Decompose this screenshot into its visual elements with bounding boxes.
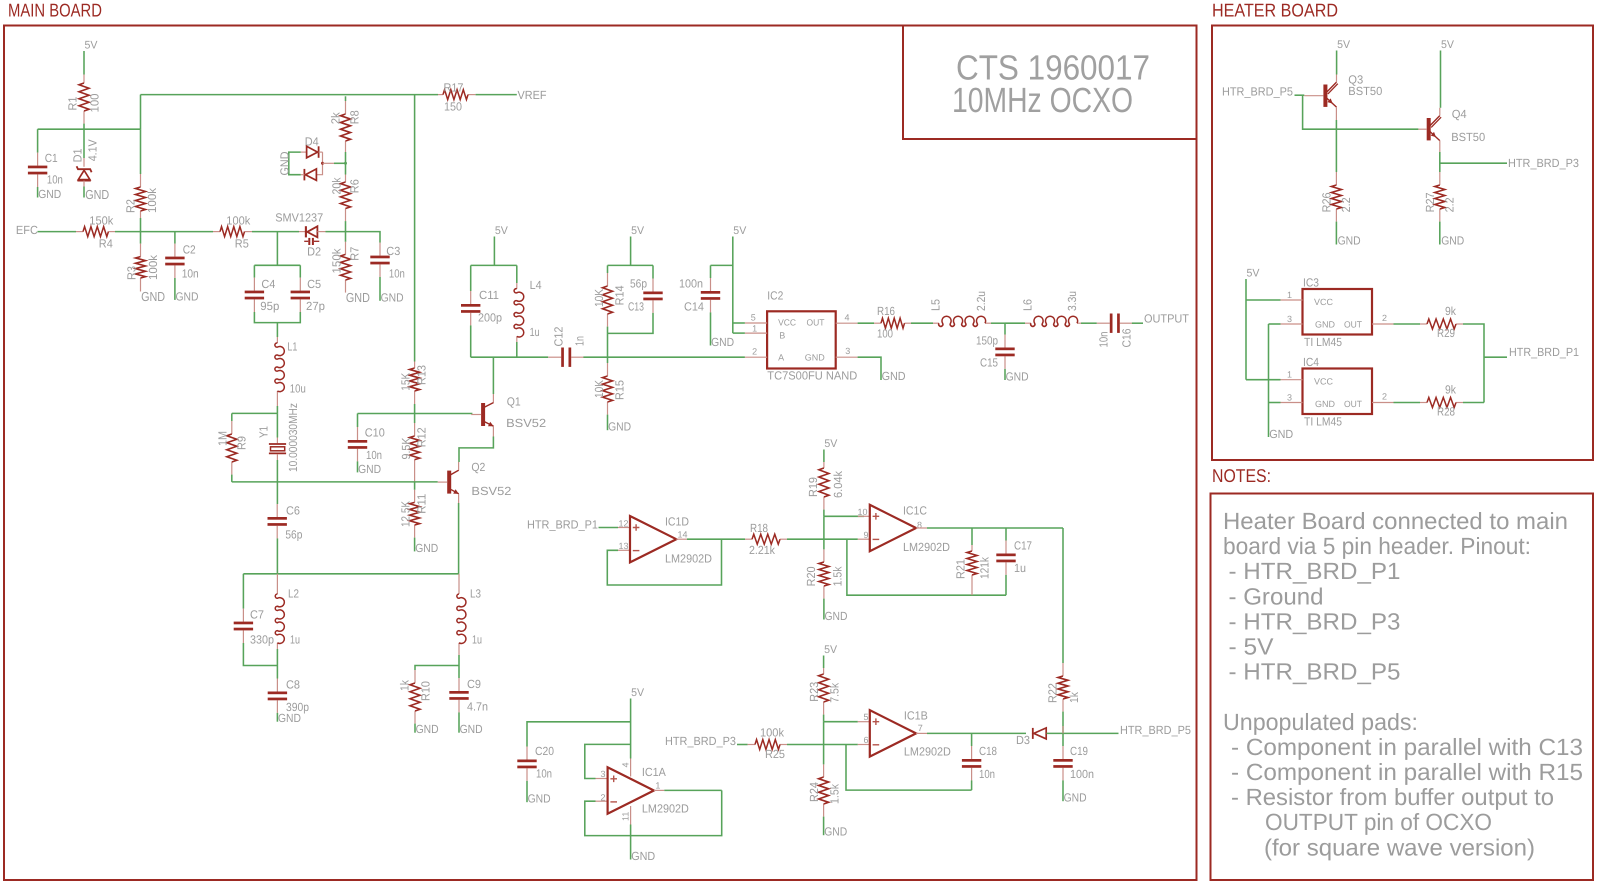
svg-text:7: 7 [918,723,923,733]
IC2 pin 3 + ground [836,356,858,358]
svg-text:D2: D2 [307,244,321,258]
wire C12 to IC2 pin2 [583,356,745,358]
svg-text:5V: 5V [631,225,645,237]
svg-text:14: 14 [678,529,688,539]
wire VREF [476,94,517,96]
svg-text:TC7S00FU NAND: TC7S00FU NAND [767,369,857,383]
wire IC1D output + feedback [676,538,687,540]
resistor R5 [213,231,220,233]
svg-text:C12: C12 [552,327,566,347]
svg-text:1u: 1u [530,325,540,339]
wire base branch to Q4 [1303,95,1419,129]
svg-text:C9: C9 [467,677,481,691]
main board frame [4,26,1197,881]
svg-text:3: 3 [845,346,850,356]
transistor Q1 BSV52 [481,403,485,426]
svg-text:10n: 10n [389,266,405,280]
svg-text:R21: R21 [954,559,968,579]
wire IC1A feedback [585,790,722,835]
svg-text:L6: L6 [1021,299,1035,311]
svg-text:C20: C20 [535,744,554,758]
svg-text:HTR_BRD_P1: HTR_BRD_P1 [527,517,598,531]
wire R9/Y1 top rail [232,412,278,414]
svg-text:3: 3 [601,769,606,779]
resistor R18 [745,538,752,540]
svg-text:9k: 9k [1445,304,1456,318]
svg-text:HTR_BRD_P3: HTR_BRD_P3 [665,734,736,748]
wire Q3 emitter [1335,107,1337,120]
svg-text:C6: C6 [286,504,300,518]
svg-text:5V: 5V [1337,39,1351,51]
resistor R20 [823,549,825,562]
ground (C14) [710,312,712,345]
resistor R21 [971,528,973,545]
svg-text:HTR_BRD_P1: HTR_BRD_P1 [1509,345,1579,359]
svg-text:R17: R17 [444,81,464,95]
svg-text:BSV52: BSV52 [506,416,546,430]
svg-text:5V: 5V [495,225,509,237]
wire C14 top rail [711,264,733,266]
svg-text:10n: 10n [366,448,382,462]
wire L2-C8 [276,649,278,679]
svg-text:C8: C8 [286,678,300,692]
svg-text:R27: R27 [1423,192,1437,212]
svg-text:C14: C14 [684,300,704,314]
wire R8-junction [345,152,347,175]
svg-text:- 5V: - 5V [1229,634,1274,660]
svg-text:- HTR_BRD_P3: - HTR_BRD_P3 [1229,608,1401,634]
svg-text:R15: R15 [612,380,626,400]
junction dot (D4 node) [344,162,347,165]
wire IC1C feedback loop [847,539,1006,595]
svg-text:C19: C19 [1070,744,1088,758]
op-amp IC1B [858,721,870,723]
wire Q4 emitter / HTR_BRD_P3 node [1439,141,1441,152]
svg-text:GND: GND [1269,427,1293,441]
capacitor C13 [652,265,654,278]
svg-text:GND: GND [1064,791,1087,805]
svg-text:5V: 5V [631,687,645,699]
capacitor C15 [1004,323,1006,334]
svg-text:56p: 56p [285,528,302,542]
ground (R10) [414,724,416,733]
ground (C20) [526,781,528,802]
svg-text:R5: R5 [235,237,249,251]
svg-text:12.5K: 12.5K [398,501,412,527]
svg-text:R19: R19 [806,477,820,497]
wire tank bottom rail [471,356,549,358]
svg-text:TI LM45: TI LM45 [1304,415,1342,429]
transistor Q2 BSV52 [447,471,451,494]
svg-text:3: 3 [1287,314,1292,324]
svg-text:1.5k: 1.5k [830,566,844,586]
svg-text:27p: 27p [306,299,325,313]
svg-text:100k: 100k [226,213,250,227]
svg-text:100: 100 [877,326,893,340]
svg-text:Q2: Q2 [471,460,485,474]
svg-text:GND: GND [631,849,655,863]
inductor L2 [276,574,278,594]
svg-text:GND: GND [1315,319,1336,329]
svg-text:2.2: 2.2 [1442,197,1456,212]
IC4 pin 1 [1246,379,1281,381]
wire D3 to HTR_BRD_P5 [1047,732,1119,734]
ground (C19) [1062,780,1064,801]
svg-text:B: B [779,330,785,340]
svg-text:R1: R1 [66,97,80,111]
resistor R12 [414,414,416,424]
capacitor C4 [253,265,255,277]
svg-text:L1: L1 [287,339,297,353]
capacitor C18 [971,733,973,746]
IC2 pin 2 [745,356,767,358]
svg-text:C18: C18 [979,744,997,758]
svg-text:Unpopulated pads:: Unpopulated pads: [1223,709,1418,735]
svg-text:IC1A: IC1A [642,765,666,779]
svg-text:4.7n: 4.7n [467,700,488,714]
svg-text:R8: R8 [348,110,362,124]
wire riser to VREF rail [140,95,142,130]
svg-text:IC2: IC2 [767,289,783,303]
svg-text:EFC: EFC [16,223,38,237]
svg-text:56p: 56p [630,276,647,290]
svg-text:3: 3 [1287,392,1292,402]
svg-text:R3: R3 [125,266,139,280]
ground (R20) [823,599,825,620]
notes frame [1211,494,1594,881]
svg-text:4: 4 [845,313,850,323]
resistor R15 [607,363,609,376]
svg-text:2: 2 [601,793,606,803]
svg-text:LM2902D: LM2902D [642,802,689,816]
resistor R1 [83,75,85,84]
svg-text:GND: GND [381,290,404,304]
svg-text:10K: 10K [592,289,606,307]
svg-text:IC1C: IC1C [903,503,927,517]
resistor R13 [414,362,416,369]
svg-text:10.000030MHz: 10.000030MHz [286,403,300,472]
wire R29 to HTR_BRD_P1 [1463,324,1484,403]
svg-text:8: 8 [917,520,922,530]
op-amp IC1A [596,778,608,780]
IC3 pin 3 [1269,323,1281,325]
IC3 pin 1 [1246,299,1281,301]
wire Q1 collector [492,394,494,403]
svg-text:L2: L2 [288,586,299,600]
svg-text:10n: 10n [1097,332,1111,348]
svg-text:GND: GND [346,290,370,305]
svg-text:100n: 100n [1070,767,1094,781]
wire tank box [471,264,517,266]
svg-text:2.2: 2.2 [1339,197,1353,212]
capacitor C17 [1005,528,1007,541]
resistor R14 [607,265,609,273]
capacitor C7 [242,574,244,609]
svg-text:R28: R28 [1437,405,1455,419]
svg-text:GND: GND [278,711,301,725]
svg-text:7.5k: 7.5k [828,683,842,703]
svg-text:1: 1 [655,780,660,790]
diode D3 [1032,728,1034,739]
svg-text:- Component in parallel with R: - Component in parallel with R15 [1231,759,1583,785]
svg-text:1: 1 [752,323,757,333]
resistor R3 [140,232,142,244]
svg-text:5V: 5V [824,438,838,450]
svg-text:R4: R4 [99,237,113,251]
wire C13 bottom rail [608,313,654,334]
svg-text:R13: R13 [414,365,428,385]
svg-text:- Ground: - Ground [1229,583,1324,609]
svg-text:10n: 10n [536,767,552,781]
resistor R2 [140,129,142,174]
capacitor C14 [710,265,712,278]
svg-text:95p: 95p [260,299,279,313]
svg-text:C3: C3 [386,244,400,258]
wire node R1/C1/D1 [38,128,141,130]
svg-text:C4: C4 [261,277,275,291]
svg-text:IC3: IC3 [1303,276,1319,290]
capacitor C10 [357,414,359,428]
wire D2-R6R7 node-C3 [326,232,381,243]
svg-text:3.3u: 3.3u [1065,291,1079,311]
svg-text:NOTES:: NOTES: [1212,465,1271,486]
svg-text:VCC: VCC [778,317,796,327]
ground (C1) [37,187,39,198]
varactor diode D2 [299,231,306,233]
capacitor C9 [458,666,460,679]
wire long column x=414.6 [414,95,416,362]
ground (C3) [379,277,381,301]
svg-text:R24: R24 [807,782,821,802]
svg-text:100n: 100n [679,276,703,290]
svg-text:5: 5 [751,313,756,323]
svg-text:BST50: BST50 [1348,84,1382,98]
svg-text:GND: GND [711,335,734,349]
svg-text:Y1: Y1 [256,426,270,438]
svg-text:C13: C13 [628,300,644,314]
svg-text:C1: C1 [45,151,58,165]
svg-text:GND: GND [528,792,551,806]
wire to L1 [276,323,278,337]
svg-text:- Resistor from buffer output: - Resistor from buffer output to [1231,784,1554,810]
svg-text:R2: R2 [123,199,137,213]
svg-text:1: 1 [1287,370,1292,380]
wire R16-L5 [911,322,933,324]
svg-text:OUT: OUT [807,317,825,327]
resistor R27 [1439,172,1441,185]
svg-text:10K: 10K [592,380,606,398]
wire to R22 [1062,528,1064,663]
wire R5-D2 [252,231,299,233]
wire Q2 emitter down [458,494,460,503]
resistor R28 [1420,402,1427,404]
wire R18 to IC1C pin9 [787,538,858,540]
title box [903,26,1197,140]
svg-text:R25: R25 [765,747,785,761]
svg-text:C16: C16 [1120,328,1134,347]
svg-text:2.21k: 2.21k [749,543,775,557]
svg-text:R26: R26 [1319,192,1333,212]
wire P5 to Q3 base [1295,94,1305,96]
wire R4-R5 [115,231,213,233]
ground (C15) [1004,369,1006,380]
ground (C10) [357,461,359,472]
inductor L5 2.2u [933,322,939,324]
inductor L6 3.3u [1005,322,1025,324]
svg-text:10n: 10n [182,266,199,280]
resistor R16 [874,322,881,324]
svg-text:LM2902D: LM2902D [903,540,950,554]
svg-text:1u: 1u [290,632,300,646]
svg-text:R12: R12 [414,427,428,447]
svg-text:GND: GND [1315,399,1336,409]
svg-text:100k: 100k [760,726,784,740]
svg-text:C11: C11 [479,288,499,302]
resistor R4 [76,231,83,233]
svg-text:10n: 10n [979,767,995,781]
svg-text:5V: 5V [824,644,838,656]
wire OUTPUT [1132,322,1143,324]
transistor Q3 BST50 [1323,85,1327,107]
wire R14-R15 node [607,333,609,363]
svg-text:L5: L5 [929,299,943,311]
svg-text:R9: R9 [235,436,249,450]
svg-text:L3: L3 [470,586,481,600]
wire R25 to IC1B pin6 [787,744,858,746]
svg-text:GND: GND [1338,234,1361,248]
capacitor C19 [1062,733,1064,746]
op-amp IC1C [858,515,870,517]
wire Q1 emitter to Q2 collector [492,426,494,436]
IC4 pin 3 [1269,402,1281,404]
svg-text:10n: 10n [47,173,63,187]
svg-text:1M: 1M [216,431,230,446]
svg-text:C17: C17 [1014,538,1032,552]
svg-text:OUT: OUT [1344,399,1362,409]
resistor R8 [345,96,347,101]
svg-text:20k: 20k [329,177,343,194]
wire C4/C5 bottom rail [254,312,300,323]
resistor R26 [1335,172,1337,185]
svg-text:GND: GND [882,369,906,383]
svg-text:GND: GND [358,462,381,476]
svg-text:D3: D3 [1016,733,1030,747]
svg-text:6.04k: 6.04k [831,471,845,498]
svg-text:2.2u: 2.2u [974,291,988,311]
svg-text:IC1B: IC1B [904,708,928,722]
svg-text:C2: C2 [183,242,196,256]
svg-text:IC1D: IC1D [665,514,689,528]
ground (C2) [174,278,176,300]
heater board frame [1212,26,1593,461]
svg-text:GND: GND [805,353,826,363]
svg-text:R20: R20 [804,566,818,586]
svg-text:GND: GND [277,152,291,176]
IC1A power pin 4 [630,759,632,777]
svg-text:R22: R22 [1046,683,1060,703]
svg-text:board via 5 pin header. Pinout: board via 5 pin header. Pinout: [1223,533,1531,559]
svg-text:R7: R7 [348,247,362,261]
svg-text:2: 2 [752,347,757,357]
svg-text:5V: 5V [1247,268,1261,280]
resistor R19 [823,462,825,468]
svg-text:R18: R18 [750,521,768,535]
svg-text:- HTR_BRD_P5: - HTR_BRD_P5 [1229,659,1401,685]
svg-text:TI LM45: TI LM45 [1304,335,1342,349]
capacitor C1 [37,129,39,152]
svg-text:GND: GND [38,187,61,201]
svg-text:4: 4 [621,762,631,767]
svg-text:R16: R16 [877,304,895,318]
svg-text:150p: 150p [976,334,998,348]
svg-text:(for square wave version): (for square wave version) [1264,834,1535,860]
wire R23/pin5 node [824,721,858,723]
svg-text:10u: 10u [290,382,306,396]
svg-text:200p: 200p [478,310,502,324]
transistor Q4 BST50 [1427,118,1431,140]
wire branch to C4/C5 [276,232,278,266]
resistor R17 [438,94,443,96]
wire L3 bottom node [458,655,460,666]
capacitor C20 [527,722,631,747]
resistor R22 [1062,663,1064,676]
svg-text:- HTR_BRD_P1: - HTR_BRD_P1 [1229,558,1401,584]
IC4 pin 2 wire [1372,402,1394,404]
svg-text:12: 12 [619,518,629,528]
svg-text:Heater Board connected to main: Heater Board connected to main [1223,508,1568,534]
svg-text:10: 10 [858,507,868,517]
resistor R9 [231,413,233,421]
svg-text:Q4: Q4 [1452,107,1467,121]
wire Q1 base rail [358,413,473,415]
svg-text:9: 9 [864,530,869,540]
svg-text:SMV1237: SMV1237 [275,210,323,224]
svg-text:BSV52: BSV52 [471,484,511,498]
inductor L1 [276,337,278,343]
svg-text:5V: 5V [1441,39,1455,51]
svg-text:1n: 1n [573,336,587,346]
svg-text:R29: R29 [1437,326,1455,340]
wire VREF rail [141,94,439,96]
svg-text:GND: GND [824,825,847,839]
svg-text:GND: GND [825,609,848,623]
svg-text:VCC: VCC [1314,376,1333,386]
svg-text:Q1: Q1 [507,395,521,409]
capacitor C6 [276,482,278,504]
svg-text:1k: 1k [398,680,412,691]
svg-text:C15: C15 [980,356,998,370]
svg-text:VREF: VREF [518,88,547,102]
ground (C8) [276,713,278,722]
svg-text:IC4: IC4 [1303,355,1319,369]
resistor R11 [414,482,416,490]
resistor R6 [345,175,347,183]
svg-text:OUTPUT: OUTPUT [1144,312,1189,326]
inductor L3 [458,574,460,594]
svg-text:150: 150 [444,99,462,113]
svg-text:330p: 330p [250,632,274,646]
svg-text:R14: R14 [612,285,626,305]
svg-text:6: 6 [864,735,869,745]
ground (R11) [414,538,416,552]
svg-text:R23: R23 [807,681,821,701]
ground (C9) [458,712,460,732]
svg-text:HEATER BOARD: HEATER BOARD [1212,0,1338,21]
svg-text:A: A [778,353,784,363]
svg-text:HTR_BRD_P5: HTR_BRD_P5 [1222,84,1293,98]
wire C4/C5 top rail [254,264,300,266]
svg-text:OUTPUT pin of OCXO: OUTPUT pin of OCXO [1265,809,1492,835]
